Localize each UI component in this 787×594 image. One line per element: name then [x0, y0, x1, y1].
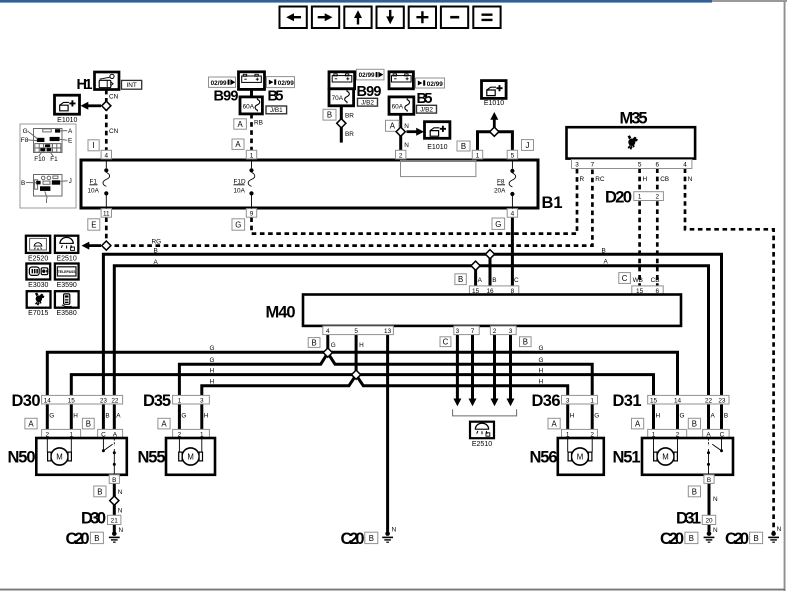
- arrow to courtesy lights: [82, 242, 102, 250]
- fuse 60A (J/B1): [240, 97, 262, 114]
- svg-text:D31: D31: [676, 510, 701, 528]
- svg-text:H: H: [359, 342, 364, 349]
- svg-text:A: A: [711, 412, 716, 419]
- svg-text:4: 4: [326, 328, 330, 335]
- wire label B right: [602, 247, 606, 254]
- wire label WB: [633, 277, 643, 284]
- wire label N: [688, 176, 693, 183]
- wire BR stub from fuse 70A: [340, 106, 343, 143]
- svg-text:B1: B1: [542, 194, 563, 212]
- component H1 ignition switch: [77, 72, 120, 93]
- svg-text:E: E: [68, 138, 72, 145]
- grid reference B (D31): [688, 418, 700, 429]
- svg-text:H: H: [539, 379, 544, 386]
- lamp E2520: [26, 236, 50, 263]
- svg-text:B: B: [602, 247, 606, 254]
- svg-text:G: G: [680, 412, 685, 419]
- wire label CB right: [651, 277, 660, 284]
- wire H branch to D36 pin 3: [356, 375, 568, 396]
- N51 top pin row A C: [703, 429, 730, 438]
- svg-text:E3580: E3580: [56, 310, 76, 317]
- D36 wire labels H G: [570, 412, 600, 419]
- svg-text:02/99: 02/99: [359, 72, 375, 79]
- D35 wire labels G H: [181, 412, 208, 419]
- svg-text:G: G: [495, 220, 501, 229]
- wire R from B1 pin 9 to M35 pin 3: [252, 168, 578, 233]
- stub D35 pin 3 to N55 pin 1: [200, 404, 203, 429]
- svg-text:22: 22: [705, 397, 713, 404]
- svg-text:4: 4: [511, 211, 515, 218]
- battery positive E1010 top: [482, 81, 507, 108]
- stub D30 pin 23 to N50 pin C: [102, 404, 105, 429]
- wire label G at M40 pin 4: [331, 342, 336, 349]
- svg-text:H: H: [570, 412, 575, 419]
- ground C20 right: [660, 530, 714, 548]
- svg-text:N: N: [713, 527, 718, 534]
- connector D36: [532, 392, 598, 410]
- svg-text:RC: RC: [595, 176, 605, 183]
- wire bridge to E1010 pins 1 and 5: [478, 132, 513, 151]
- wire label BR lower: [345, 131, 354, 138]
- svg-text:N: N: [118, 507, 123, 514]
- svg-text:RG: RG: [152, 238, 162, 245]
- stub D30 pin 14 to N50 pin 2: [46, 404, 49, 429]
- svg-text:3: 3: [575, 162, 579, 169]
- stub D30 pin 15 to N50 pin 1: [70, 404, 73, 429]
- wire label RC: [595, 176, 605, 183]
- svg-text:H1: H1: [77, 77, 93, 93]
- fuse 60A (B5 J/B2): [389, 97, 414, 114]
- svg-text:B: B: [492, 277, 496, 284]
- svg-text:C20: C20: [660, 530, 684, 548]
- svg-text:G: G: [210, 345, 215, 352]
- svg-text:I: I: [46, 198, 48, 205]
- svg-text:1: 1: [250, 152, 254, 159]
- svg-text:20: 20: [705, 518, 713, 525]
- page top border: [0, 0, 787, 3]
- motor N55: [138, 429, 216, 474]
- label B5: [268, 89, 284, 105]
- svg-text:F1: F1: [50, 156, 58, 163]
- svg-text:B: B: [21, 180, 25, 187]
- connector D20: [605, 189, 663, 207]
- junction diamond on wire B: [485, 250, 494, 259]
- svg-text:CN: CN: [109, 94, 119, 101]
- svg-text:11: 11: [103, 211, 110, 218]
- D31 wire labels H G A B: [656, 412, 729, 419]
- svg-text:A: A: [390, 122, 396, 131]
- B1 pin 9 bottom: [246, 209, 256, 218]
- svg-text:C: C: [514, 277, 519, 284]
- svg-text:N50: N50: [8, 449, 36, 467]
- M40 top pin row right: [632, 286, 663, 295]
- connector D31: [613, 392, 730, 410]
- wire label H: [643, 176, 648, 183]
- grid reference A (D30): [25, 418, 37, 429]
- grid reference B (D30): [82, 418, 94, 429]
- svg-text:G: G: [539, 357, 544, 364]
- svg-text:02/99: 02/99: [427, 81, 443, 88]
- svg-text:A: A: [478, 277, 483, 284]
- svg-text:A: A: [237, 120, 243, 129]
- wire label G right branch: [539, 357, 544, 364]
- svg-text:F10: F10: [34, 156, 45, 163]
- svg-text:H: H: [643, 176, 648, 183]
- svg-text:5: 5: [511, 152, 515, 159]
- junction diamond H1 feed: [102, 101, 111, 110]
- wire label H right branch: [539, 379, 544, 386]
- wire H trunk M40 pin 5: [355, 334, 358, 372]
- grid reference J (pin 5): [522, 140, 534, 151]
- junction diamond E1010 bridge: [490, 127, 499, 136]
- N50 top pin row C A: [98, 429, 123, 438]
- wire A from D30 pin 22 to D31 pin 22: [114, 266, 708, 396]
- svg-text:10A: 10A: [234, 188, 246, 195]
- svg-text:7: 7: [471, 328, 475, 335]
- junction diamond BR: [337, 119, 346, 128]
- label B5 second: [417, 91, 433, 107]
- label J/B1: [266, 106, 287, 114]
- svg-text:N: N: [404, 123, 409, 130]
- svg-text:N55: N55: [138, 449, 166, 467]
- svg-text:E2520: E2520: [28, 255, 48, 262]
- svg-text:M40: M40: [266, 304, 296, 322]
- grid reference B (N50 ground): [94, 486, 106, 497]
- grid reference B: [323, 109, 336, 120]
- horse emblem E7015: [27, 291, 51, 317]
- wire B stub to M40 pin 16: [489, 254, 492, 286]
- grid reference B (M40 feed): [455, 274, 466, 285]
- svg-text:CB: CB: [651, 277, 660, 284]
- svg-text:B: B: [94, 534, 99, 543]
- svg-text:23: 23: [100, 397, 108, 404]
- wire B from D30 pin 23 to D31 pin 23: [103, 254, 721, 395]
- svg-text:B: B: [369, 534, 374, 543]
- svg-text:B: B: [154, 248, 158, 255]
- wire label H left branch: [210, 379, 215, 386]
- svg-text:B5: B5: [268, 89, 284, 105]
- B1 pin 4b bottom: [507, 209, 517, 218]
- svg-text:10A: 10A: [88, 188, 100, 195]
- svg-text:N: N: [713, 496, 718, 503]
- grid reference A (D31): [632, 418, 644, 429]
- page right border: [784, 2, 786, 591]
- svg-text:N51: N51: [613, 449, 641, 467]
- svg-text:N: N: [119, 527, 124, 534]
- toolbar button equals: [473, 7, 500, 29]
- junction diamond net G: [323, 348, 332, 357]
- wire label R: [580, 176, 585, 183]
- svg-text:E3590: E3590: [57, 282, 77, 289]
- toolbar button right-arrow: [312, 7, 339, 29]
- grid reference B below M40: [308, 338, 320, 348]
- connector D31 pin 20: [676, 510, 716, 528]
- svg-text:B: B: [689, 534, 694, 543]
- svg-text:6: 6: [656, 162, 660, 169]
- N51 pin B bottom: [704, 475, 714, 484]
- svg-text:G: G: [235, 221, 241, 230]
- label J/B2: [358, 98, 378, 106]
- toolbar button minus: [441, 7, 468, 29]
- component M40: [266, 295, 682, 326]
- wire label N far right: [777, 526, 782, 533]
- wire label A: [154, 259, 159, 266]
- svg-text:N: N: [392, 526, 397, 533]
- stub D31 pin 23 to N51 pin C: [720, 404, 723, 429]
- svg-text:I: I: [93, 141, 95, 150]
- svg-text:9: 9: [250, 211, 254, 218]
- svg-text:C: C: [443, 338, 449, 347]
- svg-text:B: B: [97, 487, 102, 496]
- svg-text:G: G: [49, 412, 54, 419]
- svg-text:20A: 20A: [494, 188, 506, 195]
- svg-text:J: J: [526, 141, 530, 150]
- svg-text:H: H: [656, 412, 661, 419]
- wire label B: [154, 248, 158, 255]
- toolbar button down-arrow: [377, 7, 404, 29]
- svg-text:A: A: [604, 259, 609, 266]
- svg-text:5: 5: [638, 162, 642, 169]
- svg-text:B: B: [692, 420, 697, 429]
- svg-text:J: J: [69, 178, 72, 185]
- telepass E3590: [55, 264, 79, 290]
- motor N51: [613, 438, 734, 475]
- svg-text:N: N: [777, 526, 782, 533]
- wire N from fuse 60A to B1 pin 2: [399, 114, 402, 150]
- lamp E2510 second: [470, 422, 494, 449]
- wire label RB: [254, 119, 263, 126]
- svg-text:21: 21: [111, 518, 119, 525]
- grid reference C below M40: [440, 337, 451, 347]
- wire label N: [404, 123, 409, 130]
- svg-text:H: H: [73, 412, 78, 419]
- fuse F8 20A: [494, 160, 516, 209]
- label valid-until 02/99 (right): [267, 77, 295, 88]
- wire N from N50 pin B to ground: [113, 483, 116, 531]
- motor N56: [530, 429, 604, 474]
- svg-text:D20: D20: [605, 189, 632, 207]
- M40 top pin row left: [469, 286, 518, 295]
- grid reference A (D36): [548, 418, 560, 429]
- svg-text:A: A: [161, 420, 167, 429]
- stub D31 pin 14 to N51 pin 2: [676, 404, 679, 429]
- svg-text:3: 3: [509, 328, 513, 335]
- wire G main run D30 pin 14 to D31 pin 14: [47, 352, 677, 395]
- grid reference G second: [492, 218, 505, 229]
- junction diamond on wire A: [471, 261, 480, 270]
- D30 wire labels G H B A: [49, 412, 121, 419]
- battery B5 (J/B2): [389, 72, 413, 89]
- wire label H left main: [210, 368, 215, 375]
- svg-text:B: B: [461, 142, 466, 151]
- wire A stub to M40 pin 15: [474, 266, 477, 286]
- wire G branch to D36 pin 1: [328, 353, 592, 396]
- arrow to ground point E1010: [81, 102, 102, 110]
- svg-text:70A: 70A: [332, 95, 344, 102]
- svg-text:7: 7: [591, 162, 595, 169]
- grid reference I: [88, 140, 99, 151]
- svg-text:B: B: [327, 111, 332, 120]
- svg-text:E7015: E7015: [28, 310, 48, 317]
- B1 pin 11 bottom: [101, 209, 111, 218]
- wire CB from M35 pin 6 to M40 pin 6: [656, 168, 659, 286]
- B1 internal link pins 2-1: [401, 160, 476, 176]
- svg-text:D31: D31: [613, 392, 642, 410]
- wire label G right main: [539, 345, 544, 352]
- wire label N above diamond: [118, 489, 123, 496]
- wire lamp feed M40 pin 3: [453, 334, 461, 406]
- wire label N (N51 ground wire): [713, 496, 718, 503]
- svg-text:B: B: [523, 338, 528, 347]
- grid reference A (D35): [158, 418, 170, 429]
- svg-text:C20: C20: [341, 530, 365, 548]
- wire N from M35 pin 4 to right ground: [685, 168, 774, 531]
- N50 pin B bottom: [109, 475, 119, 484]
- svg-text:3: 3: [200, 397, 204, 404]
- stub D36 pin 1 to N56 pin 2: [591, 404, 594, 429]
- svg-text:15: 15: [650, 397, 658, 404]
- svg-text:1: 1: [178, 397, 182, 404]
- motor N50: [8, 438, 127, 475]
- svg-text:B: B: [753, 534, 758, 543]
- label valid-until 02/99 (B5): [416, 78, 445, 88]
- svg-text:CN: CN: [109, 128, 119, 135]
- B1 pin 5 top: [507, 150, 517, 159]
- component B1 fuse box: [81, 160, 563, 212]
- svg-text:A: A: [154, 259, 159, 266]
- grid reference B (pin 1): [457, 141, 470, 151]
- stub D31 pin 15 to N51 pin 1: [652, 404, 655, 429]
- phone E3580: [55, 291, 79, 317]
- wire C from B1 pin 4 to M40 pin 8: [511, 217, 514, 286]
- svg-text:2: 2: [656, 194, 660, 201]
- svg-text:60A: 60A: [243, 103, 255, 110]
- svg-text:G: G: [594, 412, 599, 419]
- svg-text:B: B: [112, 477, 116, 484]
- fusebox location detail panel: [20, 124, 76, 208]
- svg-text:N: N: [118, 489, 123, 496]
- svg-text:B: B: [724, 412, 728, 419]
- wire RG from junction to M35 pin 7: [106, 168, 592, 245]
- wire label N lower: [404, 142, 409, 149]
- wire label A above M40: [478, 277, 483, 284]
- label B99: [214, 89, 239, 105]
- svg-text:G: G: [23, 128, 28, 135]
- page bottom border: [0, 589, 786, 591]
- svg-text:C20: C20: [66, 530, 90, 548]
- svg-text:3: 3: [566, 397, 570, 404]
- svg-text:N: N: [688, 176, 693, 183]
- svg-text:B: B: [707, 477, 711, 484]
- stub D30 pin 22 to N50 pin A: [113, 404, 116, 429]
- wire label B above M40: [492, 277, 496, 284]
- grid reference E: [88, 219, 100, 230]
- wire label BR: [345, 113, 354, 120]
- B1 pin 4 top: [101, 150, 111, 159]
- svg-text:BR: BR: [345, 131, 354, 138]
- svg-text:E: E: [91, 221, 96, 230]
- wire label G left main: [210, 345, 215, 352]
- grid reference A (N wire): [386, 120, 400, 131]
- arrow to battery positive E1010 mid: [407, 128, 425, 136]
- bracket to E2510: [453, 409, 517, 416]
- svg-text:WB: WB: [633, 277, 643, 284]
- svg-text:22: 22: [111, 397, 119, 404]
- battery positive E1010 mid: [425, 122, 450, 151]
- toolbar button up-arrow: [344, 7, 371, 29]
- wire G trunk M40 pin 4: [326, 334, 329, 350]
- lamp E2510: [55, 236, 78, 263]
- svg-text:CB: CB: [660, 176, 669, 183]
- svg-text:E2510: E2510: [56, 255, 76, 262]
- connector D35: [143, 392, 209, 410]
- stub D31 pin 22 to N51 pin A: [707, 404, 710, 429]
- grid reference C (M40 right feed): [619, 273, 631, 284]
- wire H/WB from M35 pin 5 to M40 pin 15: [638, 168, 641, 286]
- svg-text:D36: D36: [532, 392, 561, 410]
- fuse 70A (J/B2): [329, 89, 354, 106]
- wire N from N51 pin B to ground: [708, 483, 711, 531]
- toolbar button plus: [409, 7, 436, 29]
- connector D30 pin 21: [81, 510, 121, 528]
- svg-text:G: G: [181, 412, 186, 419]
- label 02/99 onward (J/B2): [357, 69, 385, 80]
- svg-text:B: B: [86, 420, 91, 429]
- grid reference A lower: [232, 139, 244, 149]
- ground C20 left: [66, 530, 120, 548]
- wire label N mid ground: [392, 526, 397, 533]
- label INT: [122, 80, 142, 89]
- svg-text:E1010: E1010: [427, 144, 447, 151]
- svg-text:14: 14: [44, 397, 52, 404]
- grid reference B below M40 right: [520, 337, 532, 347]
- svg-text:13: 13: [384, 328, 392, 335]
- svg-text:B: B: [458, 275, 463, 284]
- junction diamond RG: [102, 241, 111, 250]
- wire H branch to D35 pin 3: [202, 375, 356, 396]
- grid reference G: [232, 219, 245, 230]
- svg-text:3: 3: [456, 328, 460, 335]
- svg-text:2: 2: [399, 152, 403, 159]
- svg-text:J/B2: J/B2: [420, 107, 433, 114]
- junction diamond N: [396, 127, 405, 136]
- svg-text:H: H: [210, 379, 215, 386]
- fuse F1 10A: [88, 160, 110, 209]
- svg-text:E2510: E2510: [472, 441, 492, 448]
- svg-text:TELEPASS: TELEPASS: [58, 270, 76, 274]
- arrow up to E1010 top: [490, 112, 498, 132]
- fuse F1D 10A: [234, 160, 255, 209]
- wire label N below diamond: [118, 507, 123, 514]
- wire G branch to D35 pin 1: [179, 353, 327, 396]
- svg-text:H: H: [204, 412, 209, 419]
- wire label CN: [109, 94, 119, 101]
- svg-text:A: A: [116, 412, 121, 419]
- B1 pin 1 top: [246, 150, 256, 159]
- svg-text:C: C: [622, 274, 628, 283]
- svg-text:N56: N56: [530, 449, 558, 467]
- wire label CB: [660, 176, 669, 183]
- svg-text:B99: B99: [357, 84, 382, 100]
- wire lamp feed M40 pin 3b: [507, 334, 515, 406]
- wire label H at M40 pin 5: [359, 342, 364, 349]
- label 02/99 onward (left): [209, 77, 236, 87]
- M40 bottom pin row left: [323, 326, 394, 335]
- svg-text:A: A: [235, 140, 241, 149]
- svg-text:D30: D30: [12, 392, 41, 410]
- battery positive E1010 left: [55, 95, 80, 124]
- wire CN from H1 to B1 pin 4: [105, 90, 108, 151]
